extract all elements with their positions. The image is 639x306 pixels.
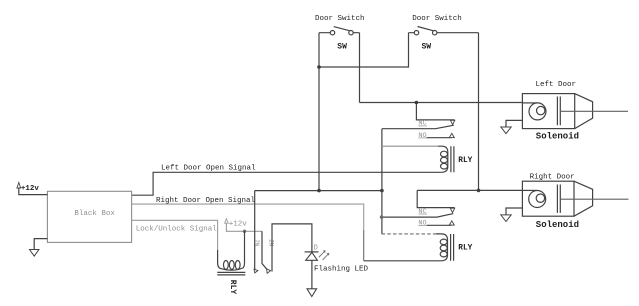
svg-text:SW: SW — [337, 42, 347, 51]
relay RLY1 coil winding loops — [441, 151, 448, 169]
lock relay RLY3 winding loops — [224, 261, 241, 270]
transistor Q1 collector wire — [254, 191, 257, 271]
wire lower rail (left segment) — [255, 190, 382, 192]
right door solenoid nose cone — [574, 181, 593, 216]
relay RLY2 coil body — [436, 234, 448, 261]
ground below LED — [307, 289, 317, 297]
left door solenoid nose cone — [575, 94, 593, 129]
node y102 wire / relay RLY1 NC — [415, 101, 419, 105]
LED emission arrows — [319, 250, 330, 260]
relay RLY2 NO contact arrow — [449, 221, 454, 225]
relay RLY1 coil body — [438, 146, 448, 172]
node +12v wire / coil leg — [243, 230, 246, 233]
relay RLY2 coil top wire (dashed) — [382, 233, 436, 235]
svg-text:Left Door: Left Door — [536, 81, 577, 89]
relay RLY1 coil top wire — [382, 145, 438, 147]
transistor Q2 collector wire — [262, 231, 269, 271]
node SW1-left / link wire — [317, 65, 321, 69]
svg-text:+12v: +12v — [21, 185, 40, 193]
wire LED to ground — [311, 260, 313, 289]
wire left door open signal from black box — [132, 172, 442, 195]
svg-text:2N: 2N — [268, 239, 275, 247]
svg-text:Flashing LED: Flashing LED — [314, 265, 369, 273]
svg-text:D: D — [314, 244, 318, 252]
flashing LED D1 triangle — [306, 252, 318, 260]
svg-text:SW: SW — [422, 42, 432, 51]
wire rail to right door solenoid — [417, 189, 522, 191]
relay RLY2 common arm — [382, 214, 454, 218]
+12v supply arrow (bottom, gray) — [225, 219, 229, 224]
relay RLY2 NC contact arrow — [450, 208, 454, 212]
node lower rail / relay bus — [380, 189, 384, 193]
left door solenoid body — [522, 94, 574, 129]
wire right door open signal (gray) — [132, 204, 364, 230]
ground at black box — [30, 250, 39, 257]
node SW2-right / right door rail — [477, 189, 481, 193]
left door solenoid plunger plates — [557, 97, 560, 126]
node lower rail / switch wire — [317, 189, 321, 193]
wire linking SW1 left to SW2 left — [319, 33, 409, 67]
svg-text:NC: NC — [418, 208, 426, 216]
svg-text:Solenoid: Solenoid — [536, 131, 579, 141]
relay RLY2 NO label — [418, 219, 427, 227]
transistor Q1 emitter arrow — [254, 269, 258, 273]
node relay RLY2 arm / bus — [380, 215, 384, 219]
relay RLY2 NO contact — [427, 224, 452, 226]
svg-text:RLY: RLY — [228, 280, 237, 295]
svg-text:RLY: RLY — [458, 245, 472, 253]
relay RLY1 NO contact arrow — [449, 133, 454, 137]
ground at left solenoid — [501, 127, 511, 134]
lock relay RLY3 coil base wire — [223, 268, 242, 270]
left door solenoid coil inner loop — [537, 106, 545, 114]
wire SW1 left terminal down to lower rail — [318, 33, 320, 191]
wire right solenoid to ground — [506, 208, 522, 215]
lock relay RLY3 coil left leg — [218, 250, 223, 269]
right door solenoid body — [522, 181, 574, 216]
svg-text:Lock/Unlock Signal: Lock/Unlock Signal — [136, 225, 218, 233]
wire left solenoid to ground — [506, 120, 522, 127]
svg-text:+12v: +12v — [229, 220, 248, 228]
right door solenoid coil loop — [529, 191, 546, 208]
wire +12v to black box — [19, 188, 48, 195]
svg-text:Door Switch: Door Switch — [315, 15, 365, 23]
lock relay RLY3 core bars — [217, 272, 245, 275]
svg-text:Black Box: Black Box — [74, 210, 115, 218]
lock relay RLY3 coil right leg — [242, 231, 245, 268]
relay RLY2 core bars — [451, 234, 454, 261]
wire SW1 right terminal down — [359, 33, 361, 103]
wire lock/unlock signal (gray) — [132, 220, 218, 250]
left door solenoid coil entry wire — [522, 102, 537, 104]
wire to left door solenoid — [360, 102, 523, 104]
svg-text:Right Door: Right Door — [530, 173, 575, 181]
relay RLY2 NC feed wire — [417, 190, 454, 207]
wire relay bus vertical — [381, 129, 383, 234]
relay RLY1 NC label — [418, 120, 427, 128]
wire black box to ground — [34, 239, 47, 250]
wire SW2 right terminal down — [478, 33, 480, 191]
svg-text:NO: NO — [418, 219, 426, 227]
left door solenoid shaft — [560, 110, 628, 112]
relay RLY1 NO contact — [427, 137, 452, 139]
left door solenoid coil loop — [529, 103, 546, 120]
svg-text:NC: NC — [418, 120, 426, 128]
svg-text:Solenoid: Solenoid — [536, 220, 579, 230]
relay RLY2 NC label — [418, 208, 427, 216]
relay RLY1 NC feed wire — [416, 103, 454, 120]
relay RLY1 NC contact arrow — [450, 120, 454, 124]
relay RLY1 common arm — [382, 125, 454, 129]
+12v supply arrow (left) — [17, 183, 21, 189]
relay RLY2 coil winding loops — [440, 239, 447, 257]
transistor Q2 emitter arrow — [267, 269, 271, 273]
wire +12v to lock relay coil — [226, 223, 262, 231]
svg-text:Left Door Open Signal: Left Door Open Signal — [161, 165, 256, 173]
svg-text:NO: NO — [418, 132, 426, 140]
black box module U1 — [47, 191, 131, 242]
right door solenoid coil inner loop — [536, 194, 544, 202]
relay RLY1 core bars — [451, 146, 454, 172]
relay RLY2 coil bottom wire — [364, 260, 442, 262]
wire Q2 to flashing LED — [272, 224, 312, 272]
flashing LED D1 cathode bar — [305, 251, 319, 253]
wire right door open signal lower drop — [363, 230, 365, 261]
svg-text:RLY: RLY — [458, 157, 472, 165]
right door solenoid coil entry wire — [522, 189, 537, 191]
door switch SW1 symbol — [319, 27, 360, 35]
right door solenoid shaft — [560, 198, 628, 200]
relay RLY1 NO label — [418, 132, 427, 140]
svg-text:Door Switch: Door Switch — [412, 15, 462, 23]
ground at right solenoid — [501, 215, 511, 222]
door switch SW2 symbol — [409, 27, 479, 35]
right door solenoid plunger plates — [557, 185, 560, 213]
svg-text:2N: 2N — [253, 239, 260, 247]
